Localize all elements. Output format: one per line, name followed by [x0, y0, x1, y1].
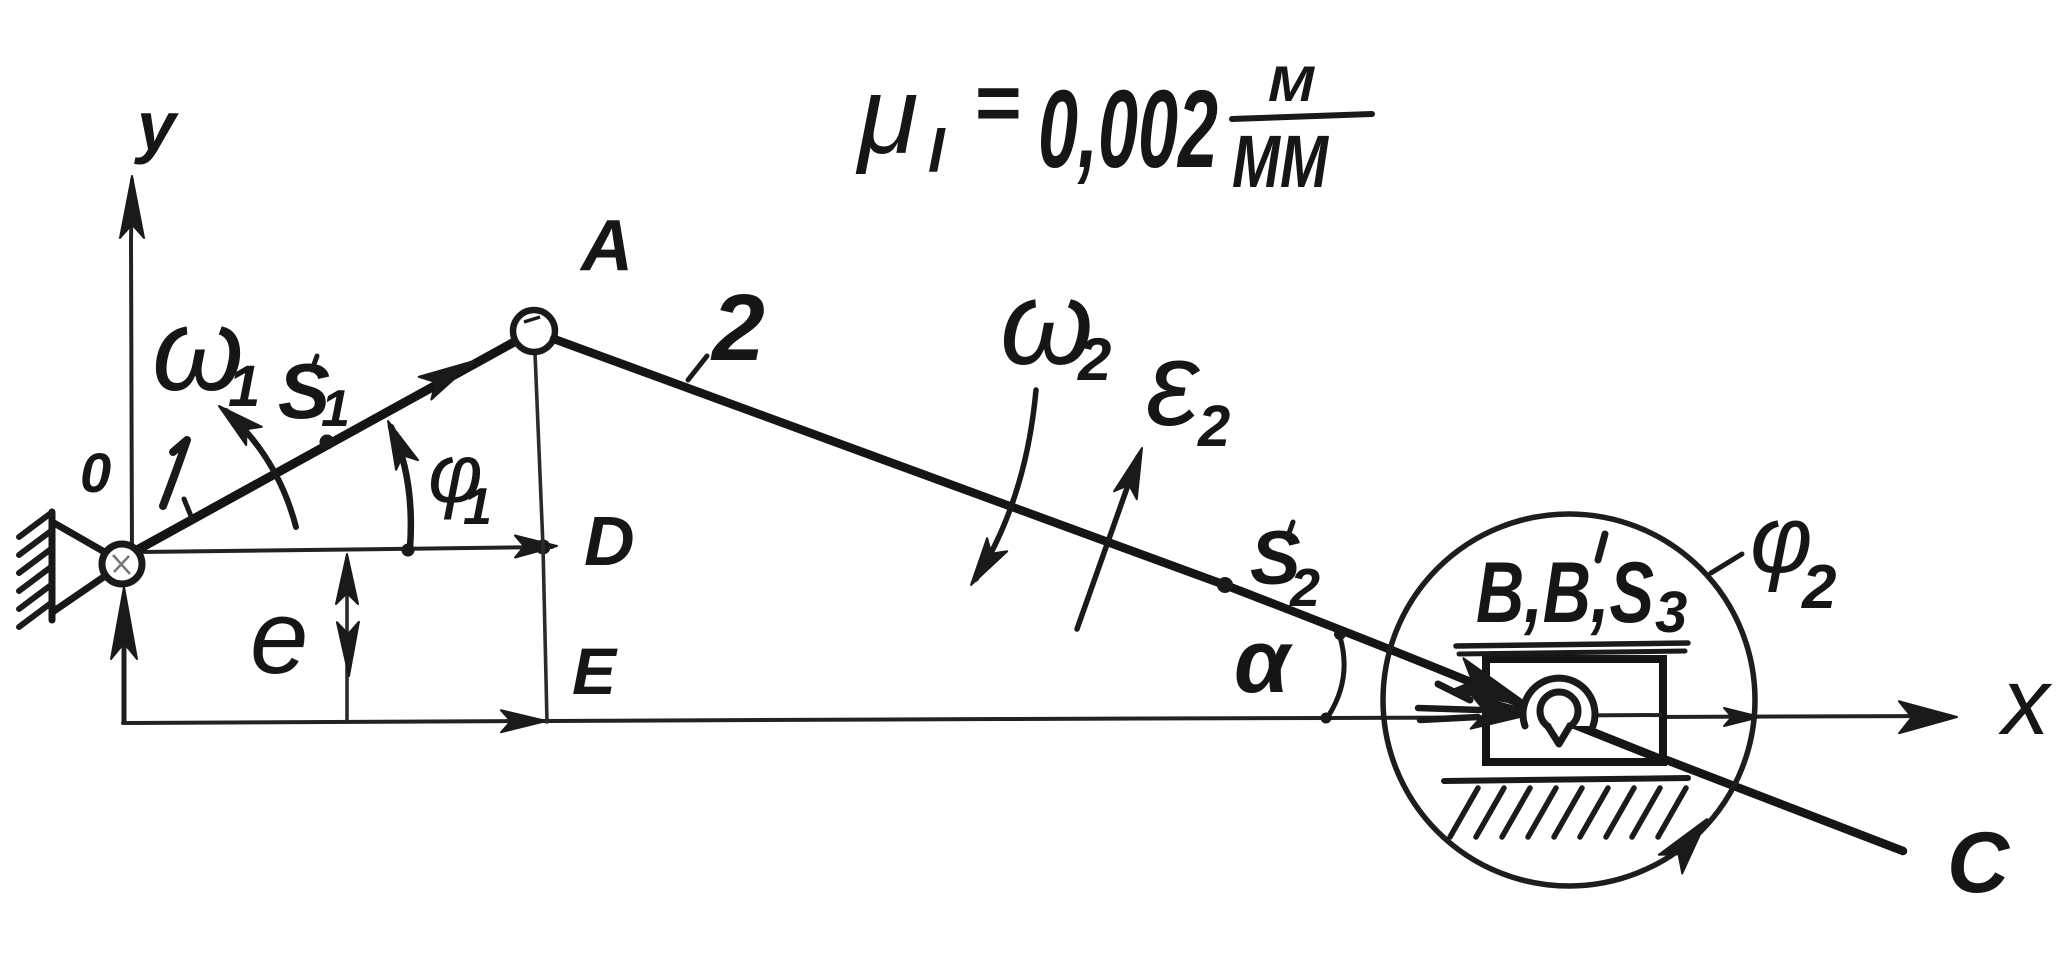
svg-text:=: = — [975, 58, 1022, 147]
svg-text:2: 2 — [710, 275, 765, 381]
svg-text:l: l — [928, 118, 946, 185]
svg-text:E: E — [572, 634, 618, 708]
svg-text:B,B,S: B,B,S — [1476, 545, 1654, 641]
svg-text:М: М — [1268, 56, 1315, 112]
svg-text:1: 1 — [228, 354, 260, 419]
svg-text:A: A — [579, 206, 633, 286]
svg-text:0: 0 — [80, 441, 111, 504]
svg-text:α: α — [1234, 612, 1293, 712]
svg-text:1: 1 — [463, 478, 492, 536]
svg-text:x: x — [1998, 649, 2053, 755]
svg-text:y: y — [134, 87, 179, 165]
svg-text:e: e — [250, 579, 308, 696]
svg-text:ε: ε — [1146, 317, 1201, 451]
svg-text:2: 2 — [1077, 326, 1111, 393]
svg-text:C: C — [1947, 815, 2011, 911]
svg-text:2: 2 — [1197, 394, 1230, 459]
svg-text:0,002: 0,002 — [1038, 68, 1218, 191]
svg-text:3: 3 — [1655, 580, 1687, 645]
svg-text:1: 1 — [321, 380, 350, 438]
svg-text:ММ: ММ — [1232, 120, 1329, 203]
svg-text:μ: μ — [855, 54, 918, 177]
svg-text:2: 2 — [1289, 558, 1320, 618]
svg-text:D: D — [584, 502, 635, 580]
svg-text:2: 2 — [1801, 553, 1836, 622]
